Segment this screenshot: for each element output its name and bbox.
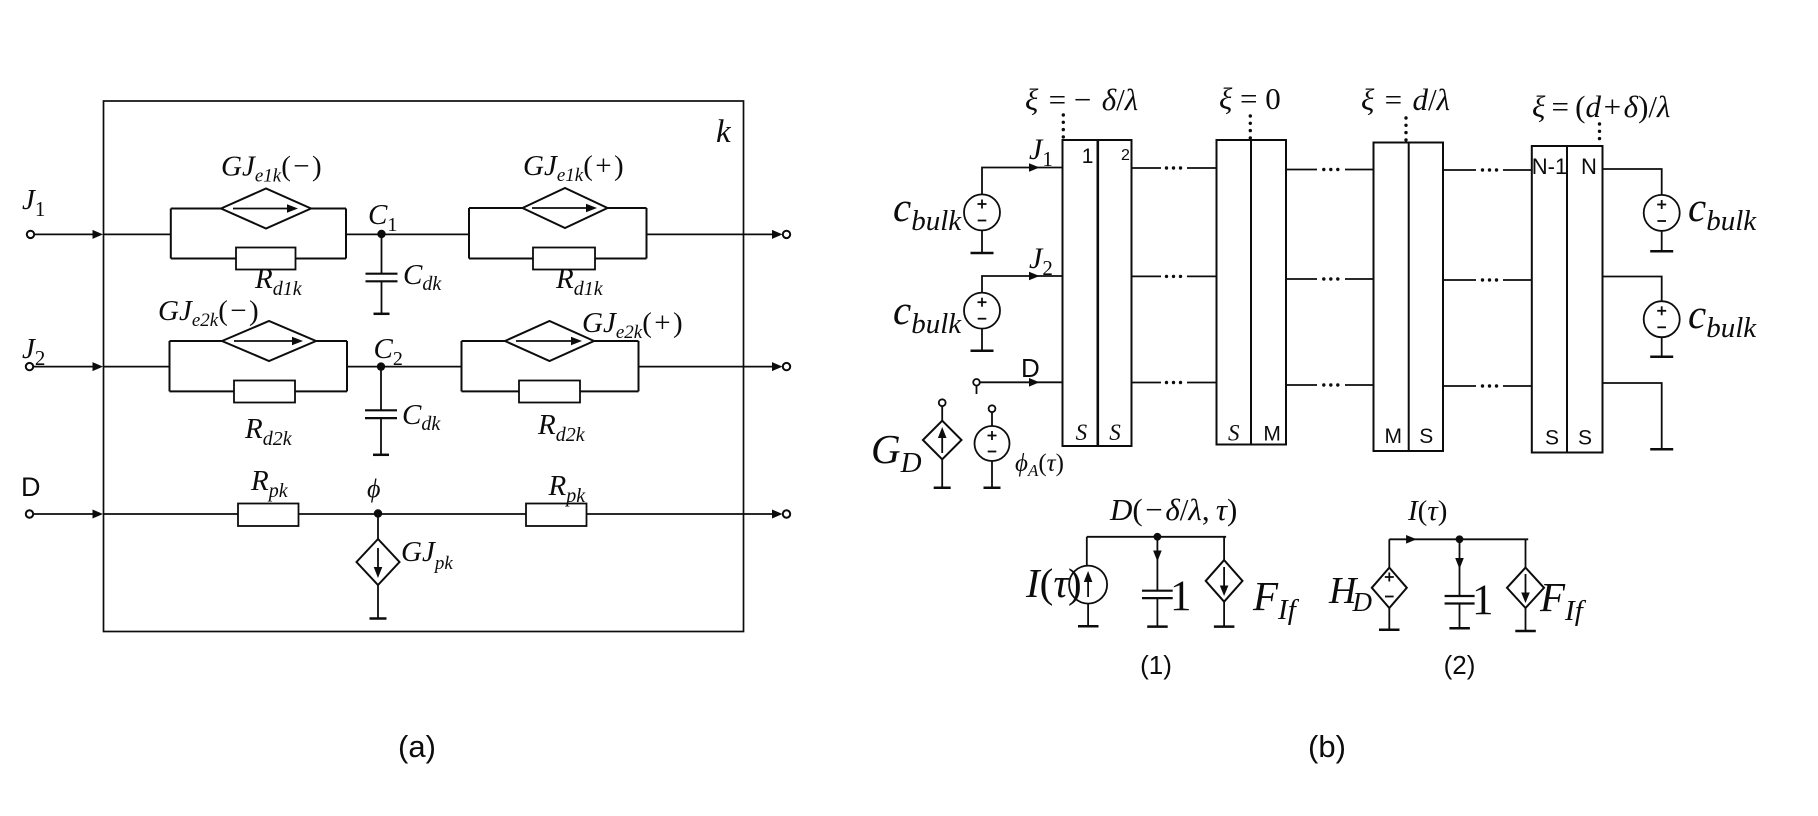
stem + ground c_bulk right1	[1661, 231, 1663, 251]
svg-text:S: S	[1419, 425, 1433, 448]
arrow on wire (2)	[1406, 535, 1417, 544]
node C1	[377, 230, 385, 238]
terminal out row3	[783, 510, 790, 517]
svg-text:ϕA(τ): ϕA(τ)	[1015, 450, 1064, 480]
wire J2 input	[34, 366, 97, 368]
diamond GJ_e2k(-)	[222, 321, 316, 361]
resistor R_d1k left	[236, 248, 296, 270]
wire row1 output	[647, 233, 776, 235]
svg-text:(1): (1)	[1140, 650, 1172, 680]
wire D input (b)	[980, 381, 1063, 383]
top wire (2)	[1389, 538, 1528, 540]
svg-text:1: 1	[1170, 573, 1192, 620]
svg-text:ξ = 0: ξ = 0	[1219, 81, 1281, 116]
wire J1 to group	[104, 233, 171, 235]
wire resistor to node phi	[299, 513, 527, 515]
dots J1 gap1	[1165, 166, 1182, 169]
resistor R_pk right	[526, 504, 587, 527]
svg-text:M: M	[1263, 423, 1281, 446]
wire D gap2	[1286, 384, 1374, 386]
terminal J2	[26, 363, 33, 370]
source c_bulk left2 circle	[964, 293, 1000, 329]
svg-text:ξ = (d + δ)/λ: ξ = (d + δ)/λ	[1532, 89, 1670, 124]
capacitor 1 (circuit 1) stem with arrow	[1156, 537, 1158, 591]
wire J2 to group	[104, 366, 170, 368]
svg-text:2: 2	[1121, 147, 1130, 164]
terminal D	[26, 510, 33, 517]
node C2	[377, 362, 385, 370]
dotted line below xi2	[1249, 114, 1252, 139]
svg-text:ξ = − δ/λ: ξ = − δ/λ	[1025, 82, 1138, 117]
controlled source GJ_e2k(+) group frame	[461, 341, 463, 391]
dotted line below xi3	[1404, 116, 1407, 141]
wire row3 output	[587, 513, 776, 515]
controlled source F_If (circuit 1)	[1223, 537, 1225, 560]
arrow inside GJ_pk	[377, 548, 379, 570]
diamond GJ_e2k(+)	[505, 321, 594, 361]
arrow inside GJ_e1k(+)	[532, 207, 588, 209]
wire J1 input (b)	[982, 168, 1063, 195]
wire D gap3	[1443, 385, 1532, 387]
dots J1 gap2	[1322, 168, 1339, 171]
svg-text:M: M	[1384, 425, 1402, 448]
source c_bulk right1 circle	[1644, 195, 1680, 231]
section box 1	[1063, 140, 1132, 446]
resistor R_d2k right	[519, 381, 580, 403]
resistor R_d1k right	[533, 248, 595, 270]
dots D gap3	[1481, 384, 1498, 387]
stem + ground F_If (circuit 2)	[1525, 608, 1527, 631]
wire D right exit	[1603, 383, 1662, 449]
svg-text:D( − δ/λ, τ): D( − δ/λ, τ)	[1109, 492, 1237, 527]
wire J2 gap2	[1286, 278, 1374, 280]
dots J1 gap3	[1481, 168, 1498, 171]
arrow inside GJ_e2k(-)	[234, 340, 294, 342]
section box 3	[1374, 143, 1444, 452]
termination bar D right	[1650, 448, 1673, 451]
terminal D (b)	[973, 379, 980, 386]
svg-text:(2): (2)	[1444, 650, 1476, 680]
capacitor C_dk row2	[365, 367, 397, 455]
svg-text:ϕ: ϕ	[367, 474, 380, 503]
svg-text:N: N	[1581, 154, 1597, 179]
svg-text:k: k	[716, 114, 732, 150]
controlled source GJ_e1k(-) group frame	[170, 209, 172, 259]
wire group to node C2	[347, 366, 462, 368]
capacitor C_dk row1	[366, 234, 398, 314]
svg-text:S: S	[1578, 427, 1592, 450]
wire D to resistor	[104, 513, 239, 515]
dotted line below xi4	[1598, 122, 1601, 140]
controlled source F_If (circuit 2)	[1525, 539, 1527, 567]
terminal J1	[27, 231, 34, 238]
stem + ground c_bulk right2	[1661, 337, 1663, 356]
wire J1 input	[35, 233, 97, 235]
source c_bulk left1 circle	[964, 194, 1000, 230]
stem + ground c_bulk left1	[981, 230, 983, 252]
section box 2	[1217, 140, 1287, 445]
capacitor 1 (circuit 2) plates	[1445, 596, 1475, 604]
top wire (1)	[1087, 536, 1226, 538]
resistor R_d2k left	[234, 381, 295, 403]
controlled source H_D	[1388, 539, 1390, 567]
arrow inside F_If (circuit 2)	[1525, 574, 1527, 596]
dots J2 gap2	[1322, 277, 1339, 280]
stem + ground cap (circuit 1)	[1156, 598, 1158, 626]
capacitor 1 (circuit 1) plates	[1142, 591, 1173, 598]
svg-text:S: S	[1545, 427, 1559, 450]
svg-text:D: D	[21, 472, 41, 502]
source G_D	[939, 399, 946, 406]
svg-text:S: S	[1228, 421, 1240, 446]
controlled source GJ_pk	[357, 514, 400, 619]
node (2)	[1456, 535, 1464, 543]
svg-text:(b): (b)	[1308, 729, 1346, 764]
stem + ground c_bulk left2	[981, 329, 983, 351]
wire J2 gap3	[1443, 279, 1532, 281]
current source I(tau) circle	[1086, 537, 1088, 566]
dots J2 gap3	[1481, 278, 1498, 281]
wire D gap1	[1132, 382, 1217, 384]
arrow inside F_If (circuit 1)	[1223, 567, 1225, 589]
wire D input	[34, 513, 97, 515]
resistor R_pk left	[238, 504, 299, 527]
arrow inside I(tau)	[1087, 576, 1089, 597]
outer box k	[104, 101, 744, 632]
wire J2 input (b)	[982, 276, 1063, 293]
arrow inside GJ_e2k(+)	[516, 340, 573, 342]
wire J1 gap3	[1443, 169, 1532, 171]
dotted line below xi1	[1062, 113, 1065, 138]
svg-text:D: D	[1021, 353, 1040, 383]
terminal out row2	[783, 363, 790, 370]
node (1)	[1154, 533, 1162, 541]
svg-text:S: S	[1109, 420, 1121, 445]
wire J1 gap2	[1286, 169, 1374, 171]
wire group to node C1	[346, 233, 469, 235]
section box 4	[1532, 146, 1603, 453]
wire J1 right exit	[1603, 169, 1662, 195]
svg-text:S: S	[1076, 420, 1088, 445]
node phi	[374, 509, 382, 517]
capacitor 1 (circuit 2) stem with arrow	[1459, 539, 1461, 596]
dots J2 gap1	[1165, 275, 1182, 278]
svg-text:I(τ): I(τ)	[1407, 495, 1447, 527]
stem + ground cap (circuit 2)	[1459, 604, 1461, 628]
controlled source GJ_e2k(-) group frame	[169, 341, 171, 391]
controlled source GJ_e1k(+) group frame	[468, 208, 470, 259]
source phi_A(tau)	[989, 405, 996, 412]
svg-text:1: 1	[1082, 145, 1094, 168]
wire J2 right exit	[1603, 277, 1662, 301]
wire row2 output	[639, 366, 776, 368]
stem + ground I(tau)	[1087, 604, 1089, 626]
diamond GJ_e1k(+)	[523, 188, 608, 228]
terminal out row1	[783, 231, 790, 238]
diamond GJ_e1k(-)	[221, 189, 311, 229]
svg-text:ξ = d/λ: ξ = d/λ	[1361, 82, 1450, 117]
arrow inside GJ_e1k(-)	[233, 208, 289, 210]
wire J1 gap1	[1132, 167, 1217, 169]
dots D gap1	[1165, 381, 1182, 384]
wire J2 gap1	[1132, 275, 1217, 277]
arrow inside G_D	[941, 432, 943, 453]
source c_bulk right2 circle	[1644, 301, 1680, 337]
dots D gap2	[1322, 383, 1339, 386]
svg-text:N-1: N-1	[1532, 154, 1567, 179]
stem + ground F_If (circuit 1)	[1223, 602, 1225, 626]
svg-text:I(τ): I(τ)	[1025, 560, 1082, 606]
stem + ground H_D	[1388, 608, 1390, 629]
svg-text:(a): (a)	[398, 729, 436, 764]
svg-text:1: 1	[1472, 577, 1494, 624]
